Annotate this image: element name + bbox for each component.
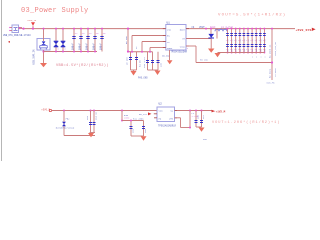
svg-text:VIN: VIN [167, 28, 172, 31]
svg-text:C16: C16 [196, 114, 199, 119]
svg-text:1u: 1u [255, 40, 257, 42]
svg-text:R4 0R: R4 0R [139, 60, 142, 67]
svg-text:+5V0_IN: +5V0_IN [27, 19, 37, 22]
svg-text:1u: 1u [246, 40, 248, 42]
svg-text:+5V0_SYS: +5V0_SYS [296, 28, 312, 32]
svg-text:C14 1u: C14 1u [94, 111, 97, 120]
svg-text:VOUT: VOUT [199, 26, 205, 29]
svg-text:100K: 100K [124, 116, 130, 119]
svg-text:VOUT=1.206*((R1/R2)+1): VOUT=1.206*((R1/R2)+1) [212, 120, 280, 125]
svg-text:FB2: FB2 [66, 118, 71, 121]
svg-text:U2: U2 [159, 103, 163, 106]
svg-text:1u: 1u [238, 49, 240, 51]
svg-text:R11 200K: R11 200K [133, 118, 144, 121]
svg-text:USB_5V0_IN: USB_5V0_IN [32, 49, 35, 65]
svg-text:VIN: VIN [159, 109, 164, 112]
svg-text:6: 6 [187, 48, 188, 50]
svg-text:BOOT: BOOT [180, 28, 186, 31]
svg-text:C13: C13 [86, 115, 89, 120]
svg-text:1u: 1u [259, 49, 261, 51]
svg-text:1u: 1u [230, 40, 232, 42]
svg-text:BLM18PG471SN1D: BLM18PG471SN1D [56, 127, 75, 130]
svg-text:1% 0402: 1% 0402 [274, 68, 277, 77]
svg-text:+5V0_SYS_FB: +5V0_SYS_FB [274, 42, 277, 56]
svg-text:1u: 1u [242, 49, 244, 51]
svg-text:C19: C19 [131, 128, 134, 133]
svg-text:U1: U1 [167, 22, 171, 25]
svg-text:C32: C32 [160, 62, 163, 67]
svg-text:USB_OTG_PWR/GB-17340: USB_OTG_PWR/GB-17340 [3, 34, 31, 37]
svg-text:100nF: 100nF [85, 42, 88, 50]
svg-text:1u: 1u [259, 40, 261, 42]
svg-text:VFB: VFB [169, 117, 174, 120]
svg-text:GND: GND [203, 138, 208, 141]
svg-text:C17: C17 [202, 114, 205, 119]
svg-text:100nF: 100nF [71, 42, 74, 50]
svg-text:TPS62A02ADRLR: TPS62A02ADRLR [158, 124, 177, 127]
svg-text:TPS54331DDAR: TPS54331DDAR [171, 51, 188, 54]
svg-text:C31 4.7u: C31 4.7u [143, 57, 146, 68]
svg-text:PAD_GND: PAD_GND [138, 77, 148, 80]
svg-text:1u: 1u [263, 40, 265, 42]
svg-text:1u: 1u [234, 49, 236, 51]
svg-text:100nF: 100nF [78, 42, 81, 50]
svg-text:1u: 1u [246, 49, 248, 51]
svg-text:1u: 1u [230, 49, 232, 51]
svg-text:100nF: 100nF [92, 42, 95, 50]
svg-text:5V0_FB: 5V0_FB [267, 82, 276, 85]
svg-text:EN_1V2: EN_1V2 [139, 113, 148, 116]
svg-text:R2 3K24: R2 3K24 [268, 68, 271, 78]
svg-text:100nF: 100nF [99, 42, 102, 50]
svg-text:VBB=4.5V*(R2/(R1+R2)): VBB=4.5V*(R2/(R1+R2)) [56, 63, 109, 68]
svg-text:1u: 1u [234, 40, 236, 42]
svg-text:1u: 1u [250, 40, 252, 42]
svg-text:R5 10K: R5 10K [200, 58, 209, 61]
svg-text:R1 10K5 1%: R1 10K5 1% [268, 44, 271, 58]
svg-text:1u: 1u [226, 49, 228, 51]
svg-text:1u: 1u [250, 49, 252, 51]
svg-text:1u: 1u [238, 40, 240, 42]
svg-text:1u: 1u [242, 40, 244, 42]
svg-text:C20: C20 [144, 128, 147, 133]
svg-text:R3 10K: R3 10K [125, 35, 128, 44]
svg-text:COMP: COMP [167, 47, 173, 50]
svg-text:VSNS: VSNS [180, 45, 186, 48]
svg-text:1u: 1u [226, 40, 228, 42]
svg-text:+1V2_M: +1V2_M [216, 110, 226, 113]
svg-text:C8 10n: C8 10n [126, 56, 129, 65]
svg-text:VOUT=5.5V*(1+R1/R2): VOUT=5.5V*(1+R1/R2) [218, 13, 286, 18]
svg-text:03_Power Supply: 03_Power Supply [21, 7, 89, 15]
svg-text:1u: 1u [255, 49, 257, 51]
svg-text:1u: 1u [263, 49, 265, 51]
